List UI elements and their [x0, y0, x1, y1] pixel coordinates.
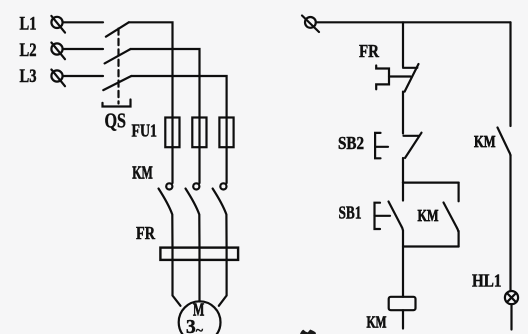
wire SB2 to junction [402, 158, 404, 183]
relay contact FR (NC) [376, 64, 418, 92]
wire L1 to QS [63, 21, 103, 23]
wire below coil [402, 310, 404, 328]
coil KM [389, 297, 416, 310]
artifact cut text at bottom [300, 330, 316, 334]
motor M circle [179, 301, 221, 334]
wire KM branch lower [458, 231, 460, 247]
svg-text:FR: FR [136, 223, 156, 243]
svg-text:HL1: HL1 [472, 271, 502, 291]
svg-text:L3: L3 [20, 66, 37, 87]
svg-text:~: ~ [196, 324, 204, 334]
wire FR to SB2 [402, 92, 404, 134]
wire FR to motor phase C [219, 260, 227, 306]
terminal L3 [51, 70, 65, 87]
wire KM contact to lamp [509, 155, 511, 291]
wire phase B from QS to fuse [131, 49, 200, 118]
fuse FU1 phase C [219, 118, 233, 148]
switch QS pole 1 blade [106, 22, 129, 36]
contactor KM aux contact (self-hold) [444, 203, 459, 232]
wire fuse C to KM contact [226, 147, 228, 183]
pushbutton SB2 (start) [375, 133, 421, 159]
svg-text:3: 3 [186, 316, 196, 334]
wire phase C from QS to fuse [131, 76, 226, 118]
terminal L1 [51, 16, 65, 33]
switch QS bracket [103, 100, 131, 107]
wire KM branch upper [458, 183, 460, 202]
thermal relay FR heater box [160, 248, 238, 260]
svg-text:SB2: SB2 [338, 133, 364, 153]
svg-text:SB1: SB1 [339, 203, 362, 223]
wire L2 to QS [63, 48, 103, 50]
svg-text:QS: QS [105, 109, 127, 133]
wire control top rail [316, 21, 511, 23]
wire phase A from QS to fuse [129, 22, 173, 117]
wire right branch upper [509, 22, 511, 126]
wire fuse B to KM contact [198, 147, 200, 183]
wire SB1 to coil [402, 231, 404, 297]
fuse FU1 phase B [192, 118, 206, 148]
contactor KM main contact 1 [159, 183, 173, 247]
svg-text:KM: KM [132, 163, 153, 183]
wire fuse A to KM contact [171, 147, 173, 183]
terminal L2 [51, 43, 65, 60]
svg-text:KM: KM [418, 206, 439, 225]
switch QS linkage dashed line [117, 29, 119, 104]
contactor KM main contact 3 [213, 183, 227, 247]
svg-text:KM: KM [474, 132, 496, 151]
svg-text:FR: FR [359, 41, 380, 61]
svg-text:FU1: FU1 [132, 120, 158, 140]
wire FR to motor phase A [173, 260, 181, 306]
fuse FU1 phase A [165, 118, 179, 148]
svg-text:L2: L2 [20, 40, 37, 61]
pushbutton SB1 (stop) [375, 183, 404, 231]
terminal control phase [302, 16, 319, 33]
svg-text:KM: KM [367, 312, 387, 331]
contactor KM main contact 2 [186, 183, 200, 247]
contactor KM aux contact (lamp) [498, 128, 511, 156]
wire left branch drop [402, 22, 404, 66]
wire parallel branch top bar [403, 182, 459, 184]
wire parallel branch bottom bar [403, 245, 459, 247]
wire L3 to QS [63, 75, 103, 77]
switch QS pole 2 blade [105, 49, 131, 63]
switch QS pole 3 blade [103, 76, 131, 90]
svg-text:L1: L1 [20, 13, 37, 34]
wire FR to motor phase B [198, 260, 200, 302]
lamp HL1 [505, 291, 518, 304]
wire below lamp [510, 304, 512, 329]
